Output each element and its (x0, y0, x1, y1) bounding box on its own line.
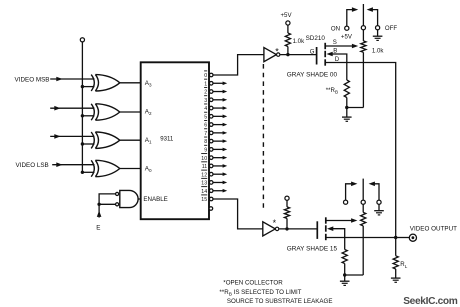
and gate U5 input bubbles (116, 192, 119, 206)
label RL (400, 261, 407, 269)
svg-text:+5V: +5V (341, 34, 353, 41)
svg-text:4: 4 (204, 106, 207, 112)
watermark SeekIC.com (403, 296, 458, 307)
svg-text:3: 3 (204, 98, 207, 104)
label SD210 (306, 35, 326, 42)
terminal node (top input terminal) (80, 38, 84, 42)
svg-text:8: 8 (204, 139, 207, 145)
pin bubble output 15 (209, 197, 213, 201)
transistor Q2 gate bar (316, 221, 318, 239)
label +5V ON (341, 34, 353, 41)
label ENABLE (143, 196, 167, 203)
svg-text:S: S (333, 39, 337, 46)
wire output 8 stub (213, 139, 227, 143)
transistor Q1 SD210 gate bar (316, 47, 318, 65)
svg-text:GRAY SHADE 15: GRAY SHADE 15 (287, 246, 338, 253)
label * open collector U6 (275, 46, 279, 56)
note RB line (219, 289, 301, 298)
label * open collector U7 (273, 218, 277, 228)
label output 15 with overbar (201, 195, 207, 203)
label output 3 with overbar (204, 96, 207, 104)
wire Q2 body with arrow (327, 226, 345, 249)
ground RL (391, 278, 401, 282)
node junction video bus (394, 236, 397, 239)
pin bubble output 13 (209, 181, 213, 185)
svg-text:*: * (273, 218, 277, 228)
pin bubble output 0 (209, 73, 213, 77)
svg-text:15: 15 (201, 197, 207, 203)
wire Q1 source with arrow (325, 44, 358, 49)
wire input row 2 with arrow (50, 106, 94, 111)
wire output 3 stub (213, 98, 227, 102)
wire E input with up arrow (97, 204, 102, 217)
wire XOR 4 output to A0 (120, 168, 141, 170)
label output 12 with overbar (201, 170, 207, 178)
resistor RL (393, 238, 398, 278)
label output 14 with overbar (201, 187, 207, 195)
label A2 (145, 109, 152, 117)
svg-text:2: 2 (204, 90, 207, 96)
wire output 2 stub (213, 90, 227, 94)
svg-text:B: B (333, 47, 337, 54)
label G (310, 48, 315, 55)
node junction on bus row 1 (81, 85, 84, 88)
wire AND top input (99, 194, 115, 204)
inverter U7 open collector (263, 222, 279, 236)
svg-text:ON: ON (331, 25, 340, 32)
label A3 (145, 80, 152, 88)
pin bubble output 12 (209, 172, 213, 176)
svg-text:0: 0 (204, 73, 207, 79)
label 9311 (160, 135, 174, 142)
switch S1 pole (361, 4, 365, 30)
ground RB top (342, 108, 352, 122)
wire output 6 stub (213, 123, 227, 127)
switch S2 right throw (369, 182, 382, 205)
svg-text:VIDEO OUTPUT: VIDEO OUTPUT (410, 225, 457, 232)
wire XOR 2 output to A2 (120, 111, 141, 113)
wire R2 bottom to RB node (347, 107, 364, 109)
label A1 (145, 137, 152, 145)
resistor R1 1.0k (285, 25, 290, 54)
resistor RB bottom (342, 250, 347, 276)
label output 1 with overbar (204, 79, 207, 87)
wire output 1 stub (213, 81, 227, 85)
label output 6 with overbar (204, 121, 207, 129)
pin bubble unused (209, 207, 213, 211)
label output 2 with overbar (204, 87, 207, 95)
wire Q1 drain to video bus (325, 63, 396, 238)
wire output 7 stub (213, 131, 227, 135)
pin bubble output 7 (209, 131, 213, 135)
label B Q1 (333, 47, 337, 54)
label output 0 with overbar (204, 71, 207, 79)
node junction E (97, 203, 100, 206)
label output 13 with overbar (201, 178, 207, 186)
svg-text:10: 10 (201, 156, 207, 162)
node junction pullup bottom (285, 227, 288, 230)
note leakage line (227, 298, 333, 305)
decoder 9311 box (141, 62, 209, 219)
wire output 14 stub (213, 189, 227, 193)
wire input row 3 with arrow (50, 134, 94, 139)
pin bubble output 14 (209, 189, 213, 193)
wire output 5 stub (213, 115, 227, 119)
label OFF (385, 25, 397, 32)
pin bubble output 3 (209, 98, 213, 102)
label GRAY SHADE 15 (287, 246, 338, 253)
node junction on bus row 4 (81, 171, 84, 174)
and gate U5 (120, 190, 141, 207)
label output 11 with overbar (201, 162, 207, 170)
wire to video output terminal (396, 237, 410, 239)
svg-text:VIDEO LSB: VIDEO LSB (16, 162, 49, 169)
svg-text:14: 14 (201, 189, 207, 195)
label output 5 with overbar (204, 112, 207, 120)
wire Q2 source with arrow (326, 218, 358, 223)
node junction on bus row 2 (81, 114, 84, 117)
terminal R3 top (285, 196, 289, 200)
svg-text:5: 5 (204, 114, 207, 120)
wire output 4 stub (213, 106, 227, 110)
svg-text:SOURCE TO SUBSTRATE LEAKAGE: SOURCE TO SUBSTRATE LEAKAGE (227, 298, 333, 305)
wire U7 output to gate (279, 228, 317, 230)
wire Q2 drain (326, 237, 396, 239)
label **RB (326, 87, 338, 95)
node junction RB bottom (343, 273, 346, 276)
label output 7 with overbar (204, 129, 207, 137)
pin bubble output 11 (209, 164, 213, 168)
xor gate U3 (91, 132, 120, 148)
label 1.0k R2 (372, 47, 384, 54)
switch S1 ON throw (345, 7, 359, 30)
xor gate U2 (91, 104, 120, 120)
wire output 11 stub (213, 164, 227, 168)
pin bubble output 6 (209, 123, 213, 127)
svg-text:SeekIC.com: SeekIC.com (403, 296, 458, 307)
svg-text:*: * (275, 46, 279, 56)
transistor Q1 channel (324, 43, 326, 66)
wire output 10 stub (213, 156, 227, 160)
wire output 9 stub (213, 148, 227, 152)
wire XOR 3 output to A1 (120, 139, 141, 141)
pin bubble output 5 (209, 115, 213, 119)
pin bubble output 9 (209, 148, 213, 152)
wire output 15 to inverter U7 (213, 199, 263, 229)
wire VIDEO MSB input with arrow (50, 77, 94, 82)
power +5V terminal R1 (286, 21, 290, 25)
svg-text:GRAY SHADE 00: GRAY SHADE 00 (287, 71, 338, 78)
wire output 13 stub (213, 181, 227, 185)
svg-text:G: G (310, 48, 315, 55)
svg-text:1: 1 (204, 81, 207, 87)
wire Q1 body with arrow (326, 52, 346, 80)
label VIDEO LSB (16, 162, 49, 169)
node junction pullup top (286, 53, 289, 56)
svg-text:SD210: SD210 (306, 35, 326, 42)
wire VIDEO LSB input with arrow (52, 162, 94, 167)
wire XOR 1 output to A3 (120, 82, 141, 84)
wire output 12 stub (213, 172, 227, 176)
svg-text:7: 7 (204, 131, 207, 137)
label output 8 with overbar (204, 137, 207, 145)
wire bus to XOR 2 lower input (82, 115, 94, 117)
svg-text:1.0k: 1.0k (372, 47, 384, 54)
wire R4 bottom to RB node (345, 274, 364, 276)
pin bubble output 2 (209, 90, 213, 94)
label ON (331, 25, 340, 32)
node junction RB ground (345, 106, 348, 109)
svg-text:1.0k: 1.0k (293, 38, 305, 45)
svg-text:+5V: +5V (281, 12, 293, 19)
terminal VIDEO OUTPUT (409, 234, 416, 241)
svg-text:12: 12 (201, 172, 207, 178)
node junction on bus row 3 (81, 142, 84, 145)
label output 9 with overbar (204, 145, 207, 153)
wire U6 output to gate (280, 54, 316, 56)
inverter U6 open collector (264, 48, 280, 62)
svg-text:9: 9 (204, 148, 207, 154)
svg-text:OFF: OFF (385, 25, 397, 32)
wire bus to XOR 1 lower input (82, 86, 94, 88)
resistor RB top (344, 80, 349, 108)
label VIDEO OUTPUT (410, 225, 457, 232)
pin bubble output 8 (209, 139, 213, 143)
ground OFF throw (373, 30, 383, 41)
svg-text:13: 13 (201, 181, 207, 187)
label output 4 with overbar (204, 104, 207, 112)
note open collector (223, 280, 283, 287)
label E (96, 224, 100, 231)
svg-text:6: 6 (204, 123, 207, 129)
switch S2 left throw (344, 182, 358, 205)
switch S1 OFF throw (367, 7, 380, 30)
label D Q1 (335, 56, 340, 63)
svg-text:*OPEN COLLECTOR: *OPEN COLLECTOR (223, 280, 283, 287)
wire vertical input bus (81, 42, 83, 172)
resistor R4 switch (361, 204, 366, 275)
wire AND bottom input (99, 203, 115, 205)
resistor R2 1.0k switch (361, 30, 366, 108)
pin bubble output 1 (209, 81, 213, 85)
svg-text:11: 11 (202, 164, 208, 170)
label GRAY SHADE 00 (287, 71, 338, 78)
xor gate U1 (91, 75, 120, 91)
switch S2 pole (361, 179, 365, 205)
label +5V R1 (281, 12, 293, 19)
svg-text:ENABLE: ENABLE (143, 196, 167, 203)
svg-text:9311: 9311 (160, 135, 174, 142)
wire bus to XOR 3 lower input (82, 143, 94, 145)
wire bus to XOR 4 lower input (82, 171, 94, 173)
dashed repetition line (262, 64, 264, 208)
pin bubble output 10 (209, 156, 213, 160)
ground RB bottom (340, 275, 350, 285)
label S Q1 (333, 39, 337, 46)
label VIDEO MSB (15, 76, 50, 83)
transistor Q2 channel (325, 217, 327, 240)
ground S2 right throw (374, 204, 384, 215)
label A0 (145, 165, 152, 173)
xor gate U4 (91, 160, 120, 176)
svg-text:E: E (96, 224, 100, 231)
pin bubble output 4 (209, 106, 213, 110)
wire output 0 to inverter U6 (213, 55, 264, 75)
svg-text:VIDEO MSB: VIDEO MSB (15, 76, 50, 83)
label 1.0k R1 (293, 38, 305, 45)
resistor R3 pullup (284, 200, 289, 229)
label output 10 with overbar (201, 154, 207, 162)
